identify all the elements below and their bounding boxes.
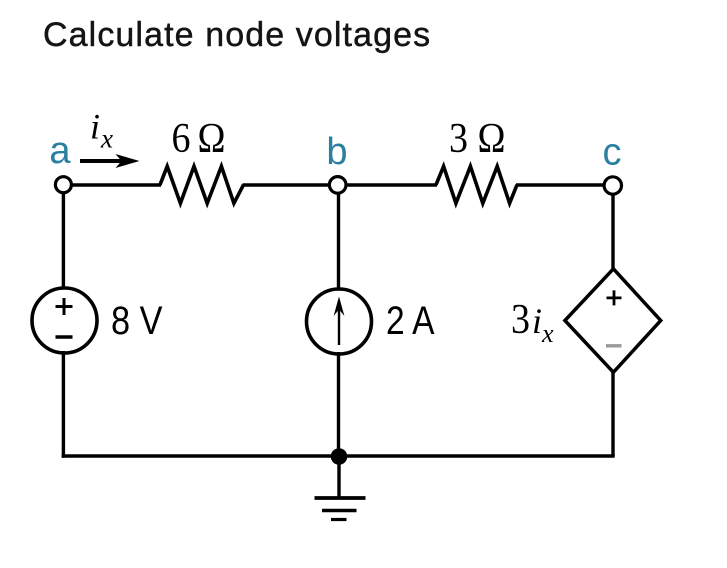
wire: voltage source V1 to bottom rail xyxy=(62,351,65,458)
svg-text:Ω: Ω xyxy=(198,116,226,162)
resistor R1 6ohm xyxy=(160,166,244,203)
wire: bottom rail xyxy=(62,454,615,457)
ground bar 1 xyxy=(315,496,366,500)
wire: current source I1 to bottom rail xyxy=(337,352,340,456)
ground bar 2 xyxy=(322,509,357,512)
voltage source V1 8V circle xyxy=(32,288,97,353)
svg-text:i: i xyxy=(90,107,100,147)
E1 minus sign xyxy=(606,344,622,347)
svg-text:b: b xyxy=(326,131,347,173)
wire: node c down to dependent source xyxy=(611,189,614,272)
svg-text:i: i xyxy=(532,301,542,341)
resistor R2 3ohm xyxy=(436,166,517,203)
current ix arrow xyxy=(80,159,123,163)
wire: node a to resistor R1 xyxy=(63,183,161,186)
dependent source E1 diamond xyxy=(565,269,661,373)
svg-text:2 A: 2 A xyxy=(386,299,435,343)
I1 arrow xyxy=(338,303,340,345)
svg-text:x: x xyxy=(100,124,113,154)
wire: node b to resistor R2 xyxy=(338,183,437,186)
ground stem xyxy=(337,456,340,498)
svg-text:c: c xyxy=(603,132,622,174)
svg-text:3: 3 xyxy=(511,297,530,343)
svg-text:Ω: Ω xyxy=(478,116,506,162)
E1 plus sign xyxy=(607,290,622,305)
ground bar 3 xyxy=(331,518,347,521)
wire: resistor R2 to node c xyxy=(516,183,613,186)
svg-text:3: 3 xyxy=(449,116,468,162)
wire: dependent source to bottom rail xyxy=(611,370,614,456)
current source I1 2A circle xyxy=(307,289,372,354)
title text xyxy=(43,16,431,55)
wire: resistor R1 to node b xyxy=(243,183,339,186)
node c open circle xyxy=(604,177,621,194)
V1 plus sign xyxy=(56,298,73,315)
junction dot at bottom node xyxy=(331,448,348,465)
V1 minus sign xyxy=(56,335,73,339)
node a open circle xyxy=(55,177,71,193)
node b open circle xyxy=(329,177,346,194)
wire: node a down to voltage source V1 xyxy=(62,189,65,290)
svg-text:x: x xyxy=(541,319,554,348)
svg-text:8 V: 8 V xyxy=(111,299,163,343)
wire: node b down to current source I1 xyxy=(337,189,340,291)
svg-text:a: a xyxy=(49,130,71,172)
svg-text:6: 6 xyxy=(172,116,191,162)
